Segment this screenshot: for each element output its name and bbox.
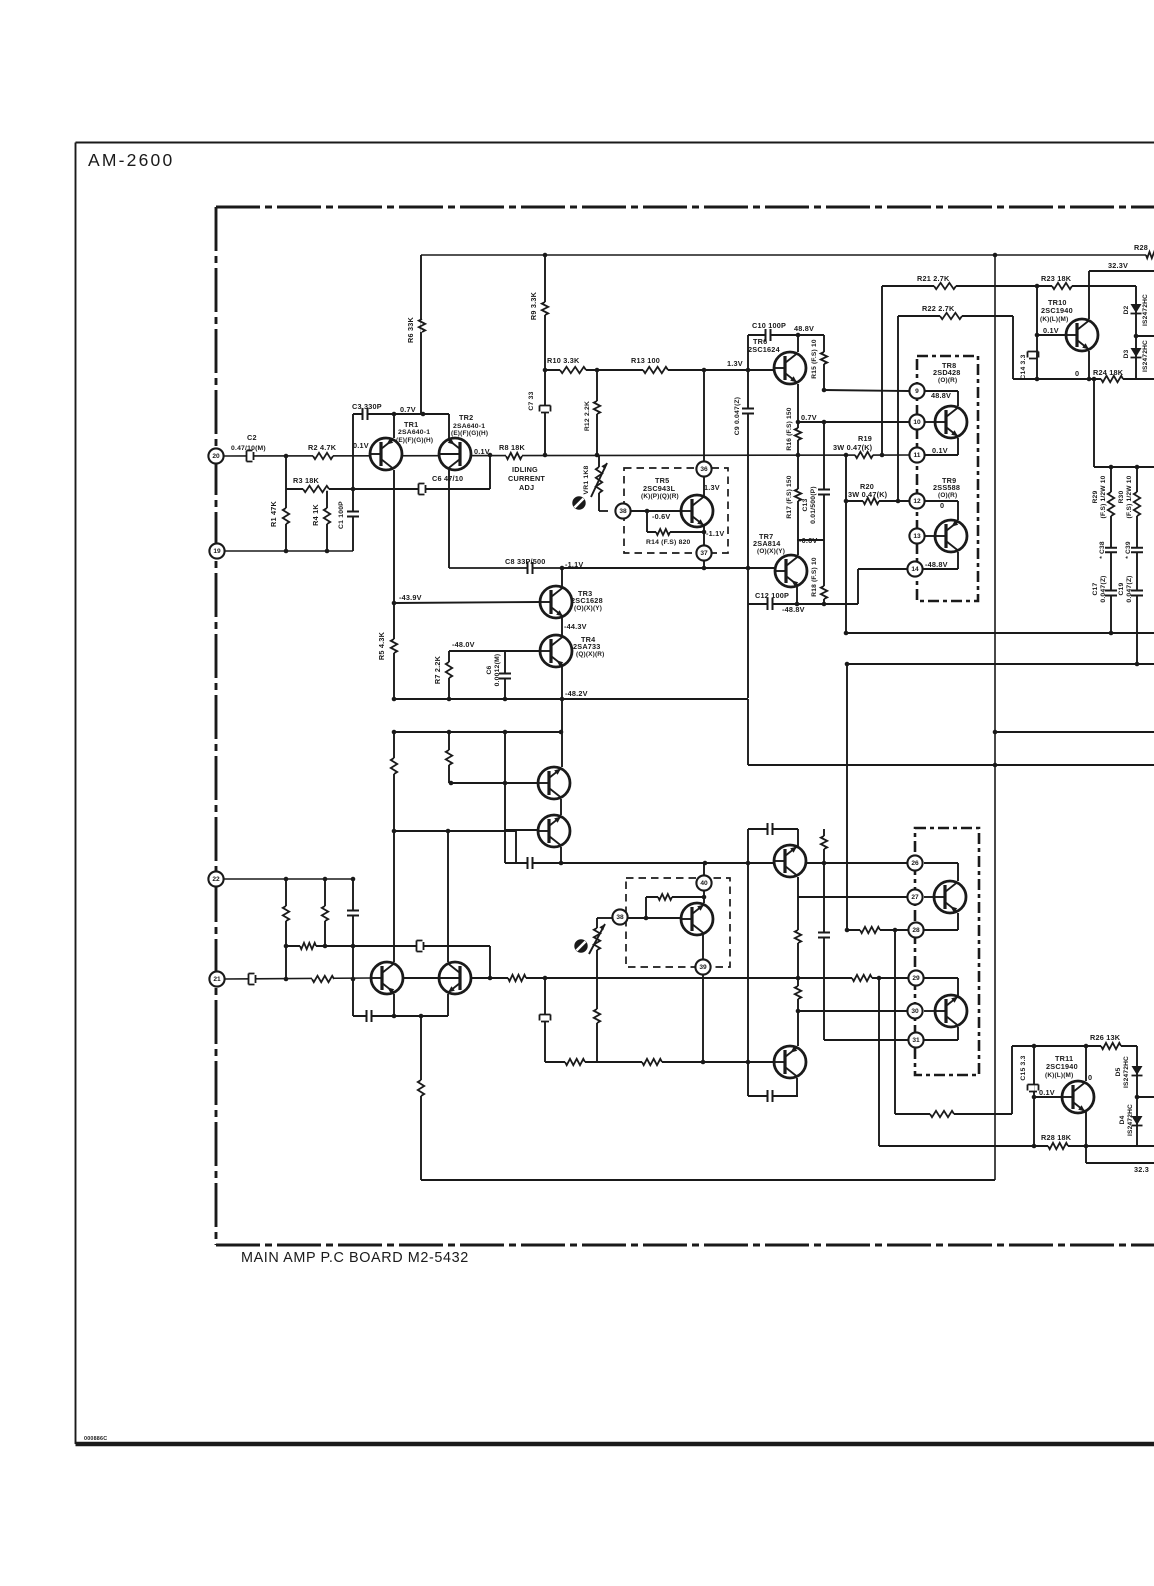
svg-text:IS2472HC: IS2472HC bbox=[1142, 294, 1149, 326]
svg-text:R21 2.7K: R21 2.7K bbox=[917, 274, 950, 283]
svg-text:D5: D5 bbox=[1115, 1067, 1122, 1076]
svg-text:R18 (F.S) 10: R18 (F.S) 10 bbox=[811, 557, 818, 597]
svg-text:R12 2.2K: R12 2.2K bbox=[584, 401, 591, 431]
svg-text:C15 3.3: C15 3.3 bbox=[1020, 1055, 1027, 1080]
svg-text:20: 20 bbox=[212, 453, 220, 460]
svg-text:19: 19 bbox=[213, 548, 221, 555]
svg-text:R28 18K: R28 18K bbox=[1041, 1133, 1072, 1142]
svg-text:R9 3.3K: R9 3.3K bbox=[529, 291, 538, 320]
svg-text:(O)(R): (O)(R) bbox=[938, 377, 957, 384]
svg-text:(E)(F)(G)(H): (E)(F)(G)(H) bbox=[451, 430, 488, 437]
svg-text:* C39: * C39 bbox=[1125, 541, 1132, 559]
svg-text:-48.8V: -48.8V bbox=[925, 560, 948, 569]
svg-text:R3 18K: R3 18K bbox=[293, 476, 319, 485]
svg-text:27: 27 bbox=[911, 894, 919, 901]
svg-text:1.3V: 1.3V bbox=[727, 359, 743, 368]
svg-text:30: 30 bbox=[911, 1008, 919, 1015]
svg-text:C3 330P: C3 330P bbox=[352, 402, 382, 411]
svg-text:32.3V: 32.3V bbox=[1108, 261, 1128, 270]
svg-text:2SA640-1: 2SA640-1 bbox=[453, 423, 485, 430]
svg-text:-44.3V: -44.3V bbox=[564, 622, 587, 631]
svg-text:TR2: TR2 bbox=[459, 413, 473, 422]
svg-text:-0.6V: -0.6V bbox=[652, 512, 670, 521]
svg-text:R13 100: R13 100 bbox=[631, 356, 660, 365]
svg-text:-1.1V: -1.1V bbox=[565, 560, 583, 569]
svg-text:CURRENT: CURRENT bbox=[508, 474, 545, 483]
svg-text:IS2472HC: IS2472HC bbox=[1142, 340, 1149, 372]
svg-text:R6 33K: R6 33K bbox=[406, 317, 415, 343]
svg-text:C2: C2 bbox=[247, 433, 257, 442]
svg-text:R22 2.7K: R22 2.7K bbox=[922, 304, 955, 313]
svg-text:2SC1940: 2SC1940 bbox=[1046, 1062, 1078, 1071]
svg-text:48.8V: 48.8V bbox=[931, 391, 951, 400]
svg-text:C9 0.047(Z): C9 0.047(Z) bbox=[734, 397, 741, 435]
svg-text:1.3V: 1.3V bbox=[704, 483, 720, 492]
svg-text:11: 11 bbox=[914, 452, 921, 459]
svg-text:(F.S) 1/2W 10: (F.S) 1/2W 10 bbox=[1100, 475, 1107, 518]
svg-text:C8 33P/500: C8 33P/500 bbox=[505, 557, 546, 566]
svg-text:31: 31 bbox=[912, 1037, 920, 1044]
svg-text:R14 (F.S) 820: R14 (F.S) 820 bbox=[646, 539, 691, 546]
svg-text:26: 26 bbox=[911, 860, 919, 867]
svg-text:0.1V: 0.1V bbox=[353, 441, 369, 450]
svg-text:(Q)(X)(R): (Q)(X)(R) bbox=[576, 651, 604, 658]
svg-text:IS2472HC: IS2472HC bbox=[1123, 1056, 1130, 1088]
svg-text:2SC1628: 2SC1628 bbox=[571, 596, 603, 605]
svg-text:ADJ: ADJ bbox=[519, 483, 534, 492]
svg-text:(O)(X)(Y): (O)(X)(Y) bbox=[757, 548, 785, 555]
svg-text:32.3: 32.3 bbox=[1134, 1165, 1149, 1174]
svg-text:C12 100P: C12 100P bbox=[755, 591, 789, 600]
svg-text:R29: R29 bbox=[1092, 490, 1099, 503]
svg-text:2SD428: 2SD428 bbox=[933, 368, 961, 377]
svg-text:R10 3.3K: R10 3.3K bbox=[547, 356, 580, 365]
svg-text:(K)(P)(Q)(R): (K)(P)(Q)(R) bbox=[641, 493, 679, 500]
svg-text:C19: C19 bbox=[1118, 582, 1125, 595]
svg-text:-48.0V: -48.0V bbox=[452, 640, 475, 649]
svg-text:R16 (F.S) 150: R16 (F.S) 150 bbox=[786, 407, 793, 450]
svg-text:(E)(F)(G)(H): (E)(F)(G)(H) bbox=[396, 437, 433, 444]
svg-text:-0.6V: -0.6V bbox=[799, 536, 817, 545]
svg-text:2SA640-1: 2SA640-1 bbox=[398, 429, 430, 436]
svg-text:3W 0.47(K): 3W 0.47(K) bbox=[833, 443, 873, 452]
svg-text:14: 14 bbox=[911, 566, 919, 573]
svg-text:9: 9 bbox=[915, 388, 919, 395]
svg-text:2SC1940: 2SC1940 bbox=[1041, 306, 1073, 315]
svg-text:2SA733: 2SA733 bbox=[573, 642, 601, 651]
svg-text:R1 47K: R1 47K bbox=[269, 501, 278, 527]
svg-text:39: 39 bbox=[699, 964, 707, 971]
svg-text:(K)(L)(M): (K)(L)(M) bbox=[1040, 316, 1068, 323]
svg-text:38: 38 bbox=[619, 508, 627, 515]
svg-text:0: 0 bbox=[1075, 369, 1079, 378]
svg-text:28: 28 bbox=[912, 927, 920, 934]
svg-text:D2: D2 bbox=[1123, 305, 1130, 314]
svg-text:R24 18K: R24 18K bbox=[1093, 368, 1124, 377]
svg-text:0.047(Z): 0.047(Z) bbox=[1126, 575, 1133, 602]
svg-text:D4: D4 bbox=[1119, 1115, 1126, 1124]
svg-text:0: 0 bbox=[940, 501, 944, 510]
svg-text:12: 12 bbox=[913, 498, 921, 505]
svg-text:36: 36 bbox=[700, 466, 708, 473]
svg-text:3W 0.47(K): 3W 0.47(K) bbox=[848, 490, 888, 499]
svg-text:0.47/10(M): 0.47/10(M) bbox=[231, 445, 266, 452]
svg-text:10: 10 bbox=[913, 419, 921, 426]
svg-text:-1.1V: -1.1V bbox=[706, 529, 724, 538]
svg-text:13: 13 bbox=[913, 533, 921, 540]
svg-text:C14 3.3: C14 3.3 bbox=[1020, 354, 1027, 379]
svg-text:R7 2.2K: R7 2.2K bbox=[433, 655, 442, 684]
svg-text:0.1V: 0.1V bbox=[1039, 1088, 1055, 1097]
svg-text:R4 1K: R4 1K bbox=[311, 504, 320, 526]
svg-text:C6: C6 bbox=[486, 665, 493, 674]
svg-text:0.0012(M): 0.0012(M) bbox=[494, 654, 501, 687]
svg-text:R19: R19 bbox=[858, 434, 872, 443]
svg-text:TR1: TR1 bbox=[404, 420, 418, 429]
svg-text:0: 0 bbox=[1088, 1073, 1092, 1082]
svg-text:-43.9V: -43.9V bbox=[399, 593, 422, 602]
svg-text:22: 22 bbox=[212, 876, 220, 883]
svg-text:(O)(R): (O)(R) bbox=[938, 492, 957, 499]
svg-text:0.047(Z): 0.047(Z) bbox=[1100, 575, 1107, 602]
svg-text:38: 38 bbox=[616, 914, 624, 921]
svg-text:2SC1624: 2SC1624 bbox=[748, 345, 781, 354]
svg-text:0.01/500(P): 0.01/500(P) bbox=[810, 486, 817, 524]
svg-text:C10 100P: C10 100P bbox=[752, 321, 786, 330]
svg-text:R17 (F.S) 150: R17 (F.S) 150 bbox=[786, 475, 793, 518]
svg-text:-48.2V: -48.2V bbox=[565, 689, 588, 698]
svg-text:0.1V: 0.1V bbox=[474, 447, 490, 456]
svg-text:AM-2600: AM-2600 bbox=[88, 150, 174, 170]
svg-text:2SA814: 2SA814 bbox=[753, 539, 781, 548]
svg-text:0.1V: 0.1V bbox=[932, 446, 948, 455]
svg-text:40: 40 bbox=[700, 880, 708, 887]
svg-text:2SS588: 2SS588 bbox=[933, 483, 960, 492]
svg-text:R8 18K: R8 18K bbox=[499, 443, 525, 452]
svg-text:2SC943L: 2SC943L bbox=[643, 484, 676, 493]
svg-text:C6 47/10: C6 47/10 bbox=[432, 474, 463, 483]
svg-text:MAIN AMP P.C BOARD M2-5432: MAIN AMP P.C BOARD M2-5432 bbox=[241, 1250, 469, 1266]
svg-text:R5 4.3K: R5 4.3K bbox=[377, 631, 386, 660]
svg-text:C1 100P: C1 100P bbox=[338, 501, 345, 529]
svg-text:R30: R30 bbox=[1118, 490, 1125, 503]
svg-text:IS2472HC: IS2472HC bbox=[1127, 1104, 1134, 1136]
svg-text:(O)(X)(Y): (O)(X)(Y) bbox=[574, 605, 602, 612]
svg-text:C17: C17 bbox=[1092, 582, 1099, 595]
svg-text:C13: C13 bbox=[802, 498, 809, 511]
svg-text:21: 21 bbox=[213, 976, 221, 983]
svg-text:29: 29 bbox=[912, 975, 920, 982]
svg-text:R23 18K: R23 18K bbox=[1041, 274, 1072, 283]
svg-text:48.8V: 48.8V bbox=[794, 324, 814, 333]
svg-text:(K)(L)(M): (K)(L)(M) bbox=[1045, 1072, 1073, 1079]
svg-text:R26 13K: R26 13K bbox=[1090, 1033, 1121, 1042]
svg-text:D3: D3 bbox=[1123, 349, 1130, 358]
svg-text:C7 33: C7 33 bbox=[528, 391, 535, 410]
svg-text:(F.S) 1/2W 10: (F.S) 1/2W 10 bbox=[1126, 475, 1133, 518]
svg-text:R15 (F.S) 10: R15 (F.S) 10 bbox=[811, 339, 818, 379]
svg-text:0.7V: 0.7V bbox=[801, 413, 817, 422]
svg-text:0.1V: 0.1V bbox=[1043, 326, 1059, 335]
svg-text:R2 4.7K: R2 4.7K bbox=[308, 443, 337, 452]
svg-text:0.7V: 0.7V bbox=[400, 405, 416, 414]
svg-text:R28: R28 bbox=[1134, 243, 1148, 252]
svg-text:000886C: 000886C bbox=[84, 1436, 107, 1442]
svg-text:-48.8V: -48.8V bbox=[782, 605, 805, 614]
svg-text:IDLING: IDLING bbox=[512, 465, 538, 474]
svg-text:VR1 1K8: VR1 1K8 bbox=[583, 465, 590, 494]
svg-text:* C38: * C38 bbox=[1099, 541, 1106, 559]
svg-text:37: 37 bbox=[700, 550, 708, 557]
